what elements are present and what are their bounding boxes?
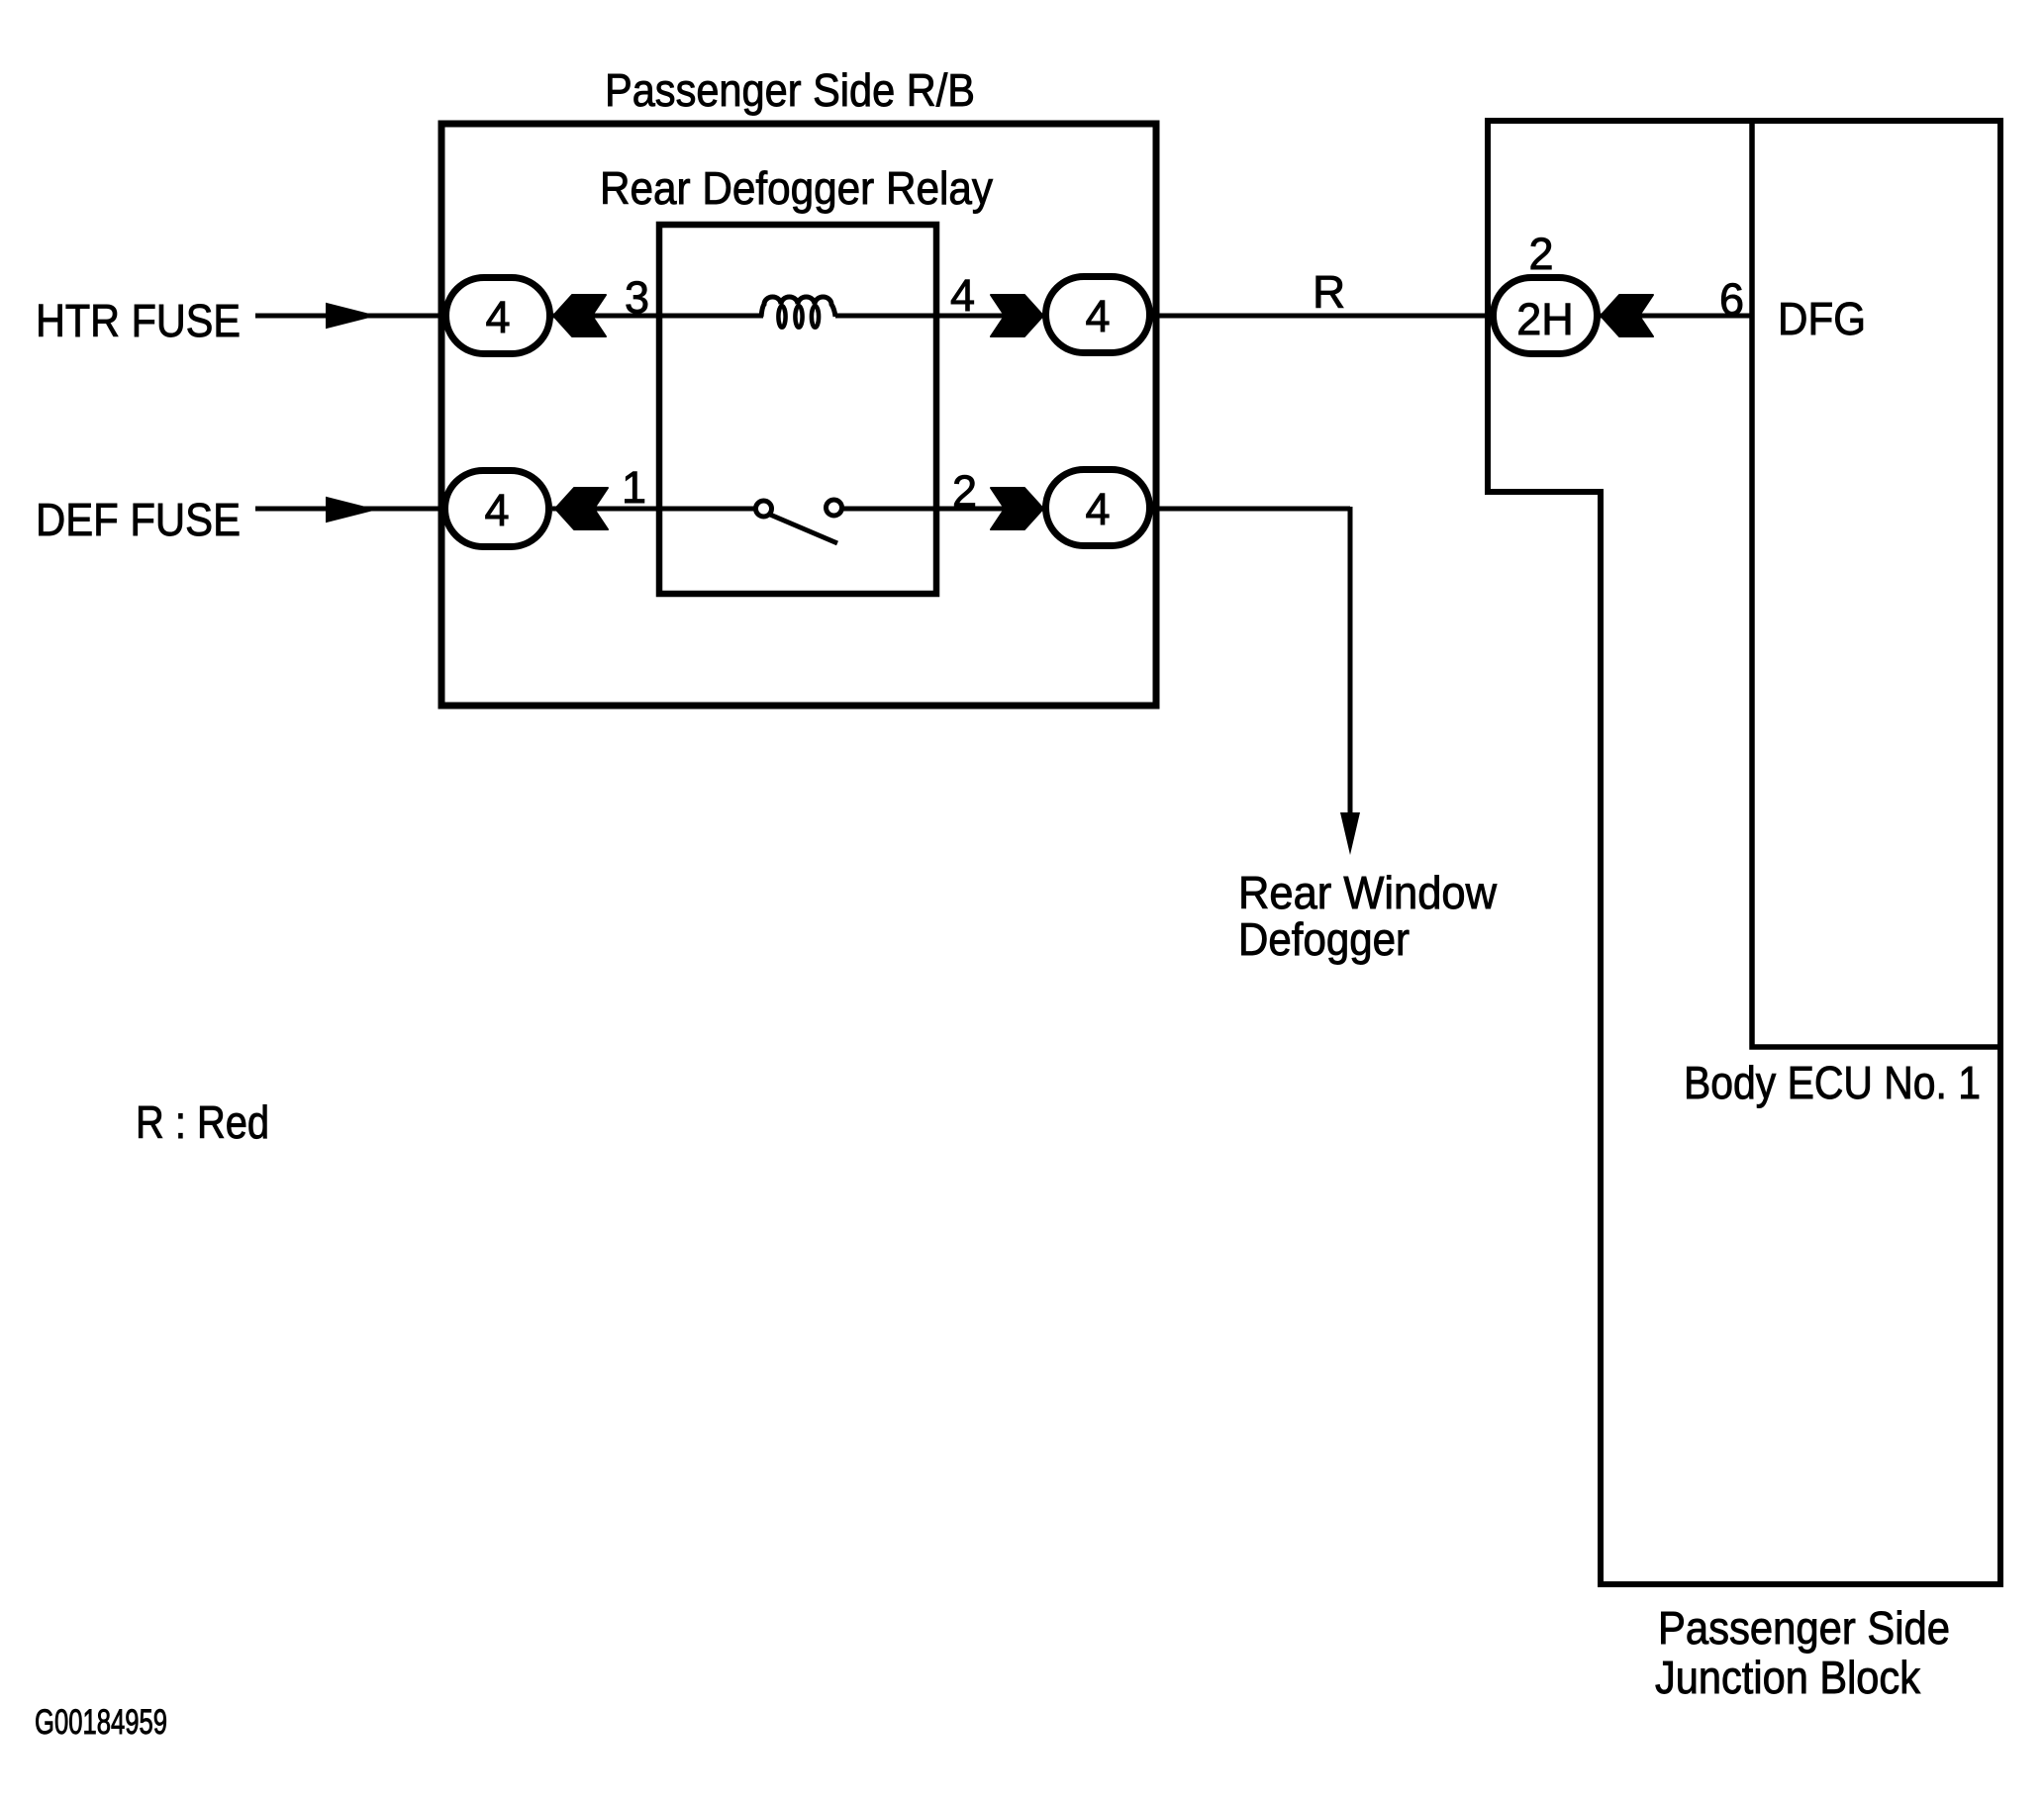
svg-text:6: 6 xyxy=(1719,274,1744,325)
svg-text:4: 4 xyxy=(950,270,975,321)
svg-text:4: 4 xyxy=(485,292,510,342)
svg-text:Body ECU No. 1: Body ECU No. 1 xyxy=(1684,1057,1981,1108)
svg-text:DEF FUSE: DEF FUSE xyxy=(36,494,241,545)
svg-text:G00184959: G00184959 xyxy=(35,1703,167,1742)
svg-text:HTR FUSE: HTR FUSE xyxy=(36,295,241,346)
svg-text:Passenger Side R/B: Passenger Side R/B xyxy=(605,64,975,116)
svg-text:Rear Window: Rear Window xyxy=(1238,867,1498,918)
svg-text:2: 2 xyxy=(1528,229,1553,279)
svg-text:4: 4 xyxy=(1085,291,1110,341)
svg-text:2H: 2H xyxy=(1516,294,1574,344)
svg-text:2: 2 xyxy=(952,466,977,517)
svg-text:R: R xyxy=(1313,266,1345,318)
svg-text:R : Red: R : Red xyxy=(136,1096,269,1148)
svg-text:Passenger Side: Passenger Side xyxy=(1658,1602,1950,1654)
svg-text:4: 4 xyxy=(484,485,509,535)
svg-text:Junction Block: Junction Block xyxy=(1655,1652,1921,1703)
svg-text:Rear Defogger Relay: Rear Defogger Relay xyxy=(600,162,993,214)
svg-text:1: 1 xyxy=(622,462,646,513)
svg-text:Defogger: Defogger xyxy=(1238,913,1410,965)
svg-text:DFG: DFG xyxy=(1778,293,1866,344)
svg-text:4: 4 xyxy=(1085,484,1110,534)
svg-text:3: 3 xyxy=(625,272,649,323)
